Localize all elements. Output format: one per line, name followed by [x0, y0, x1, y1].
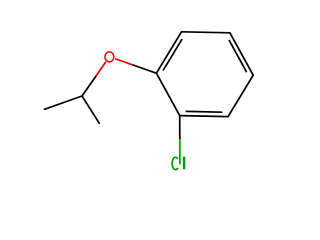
benzene edge C4-C3: [228, 75, 253, 116]
benzene edge C5-C4: [230, 33, 253, 75]
double bond inner C3-C2b: [186, 110, 221, 113]
bond C2b-Cl (black half): [179, 116, 181, 140]
atom label O: [105, 52, 114, 62]
benzene edge C6-C5: [182, 32, 230, 33]
bond CH-CH3 left: [45, 96, 83, 109]
bond CH-CH3 right: [82, 96, 99, 123]
bond C2b-Cl (green half): [179, 140, 181, 164]
bond O-C2 (black half): [82, 77, 96, 96]
benzene edge C3-C2b: [180, 116, 228, 117]
atom label Cl: letter l: [183, 157, 185, 170]
bond O-C1 (red half): [116, 59, 133, 65]
benzene edge C1-C6: [156, 32, 181, 73]
double bond inner C5-C4: [229, 41, 246, 72]
bond O-C1 (black half): [133, 65, 156, 73]
atom label Cl: letter C: [172, 157, 178, 169]
benzene edge C2b-C1: [156, 73, 179, 115]
bond O-C2 (red half): [96, 62, 106, 76]
double bond inner C1-C6: [163, 40, 181, 70]
